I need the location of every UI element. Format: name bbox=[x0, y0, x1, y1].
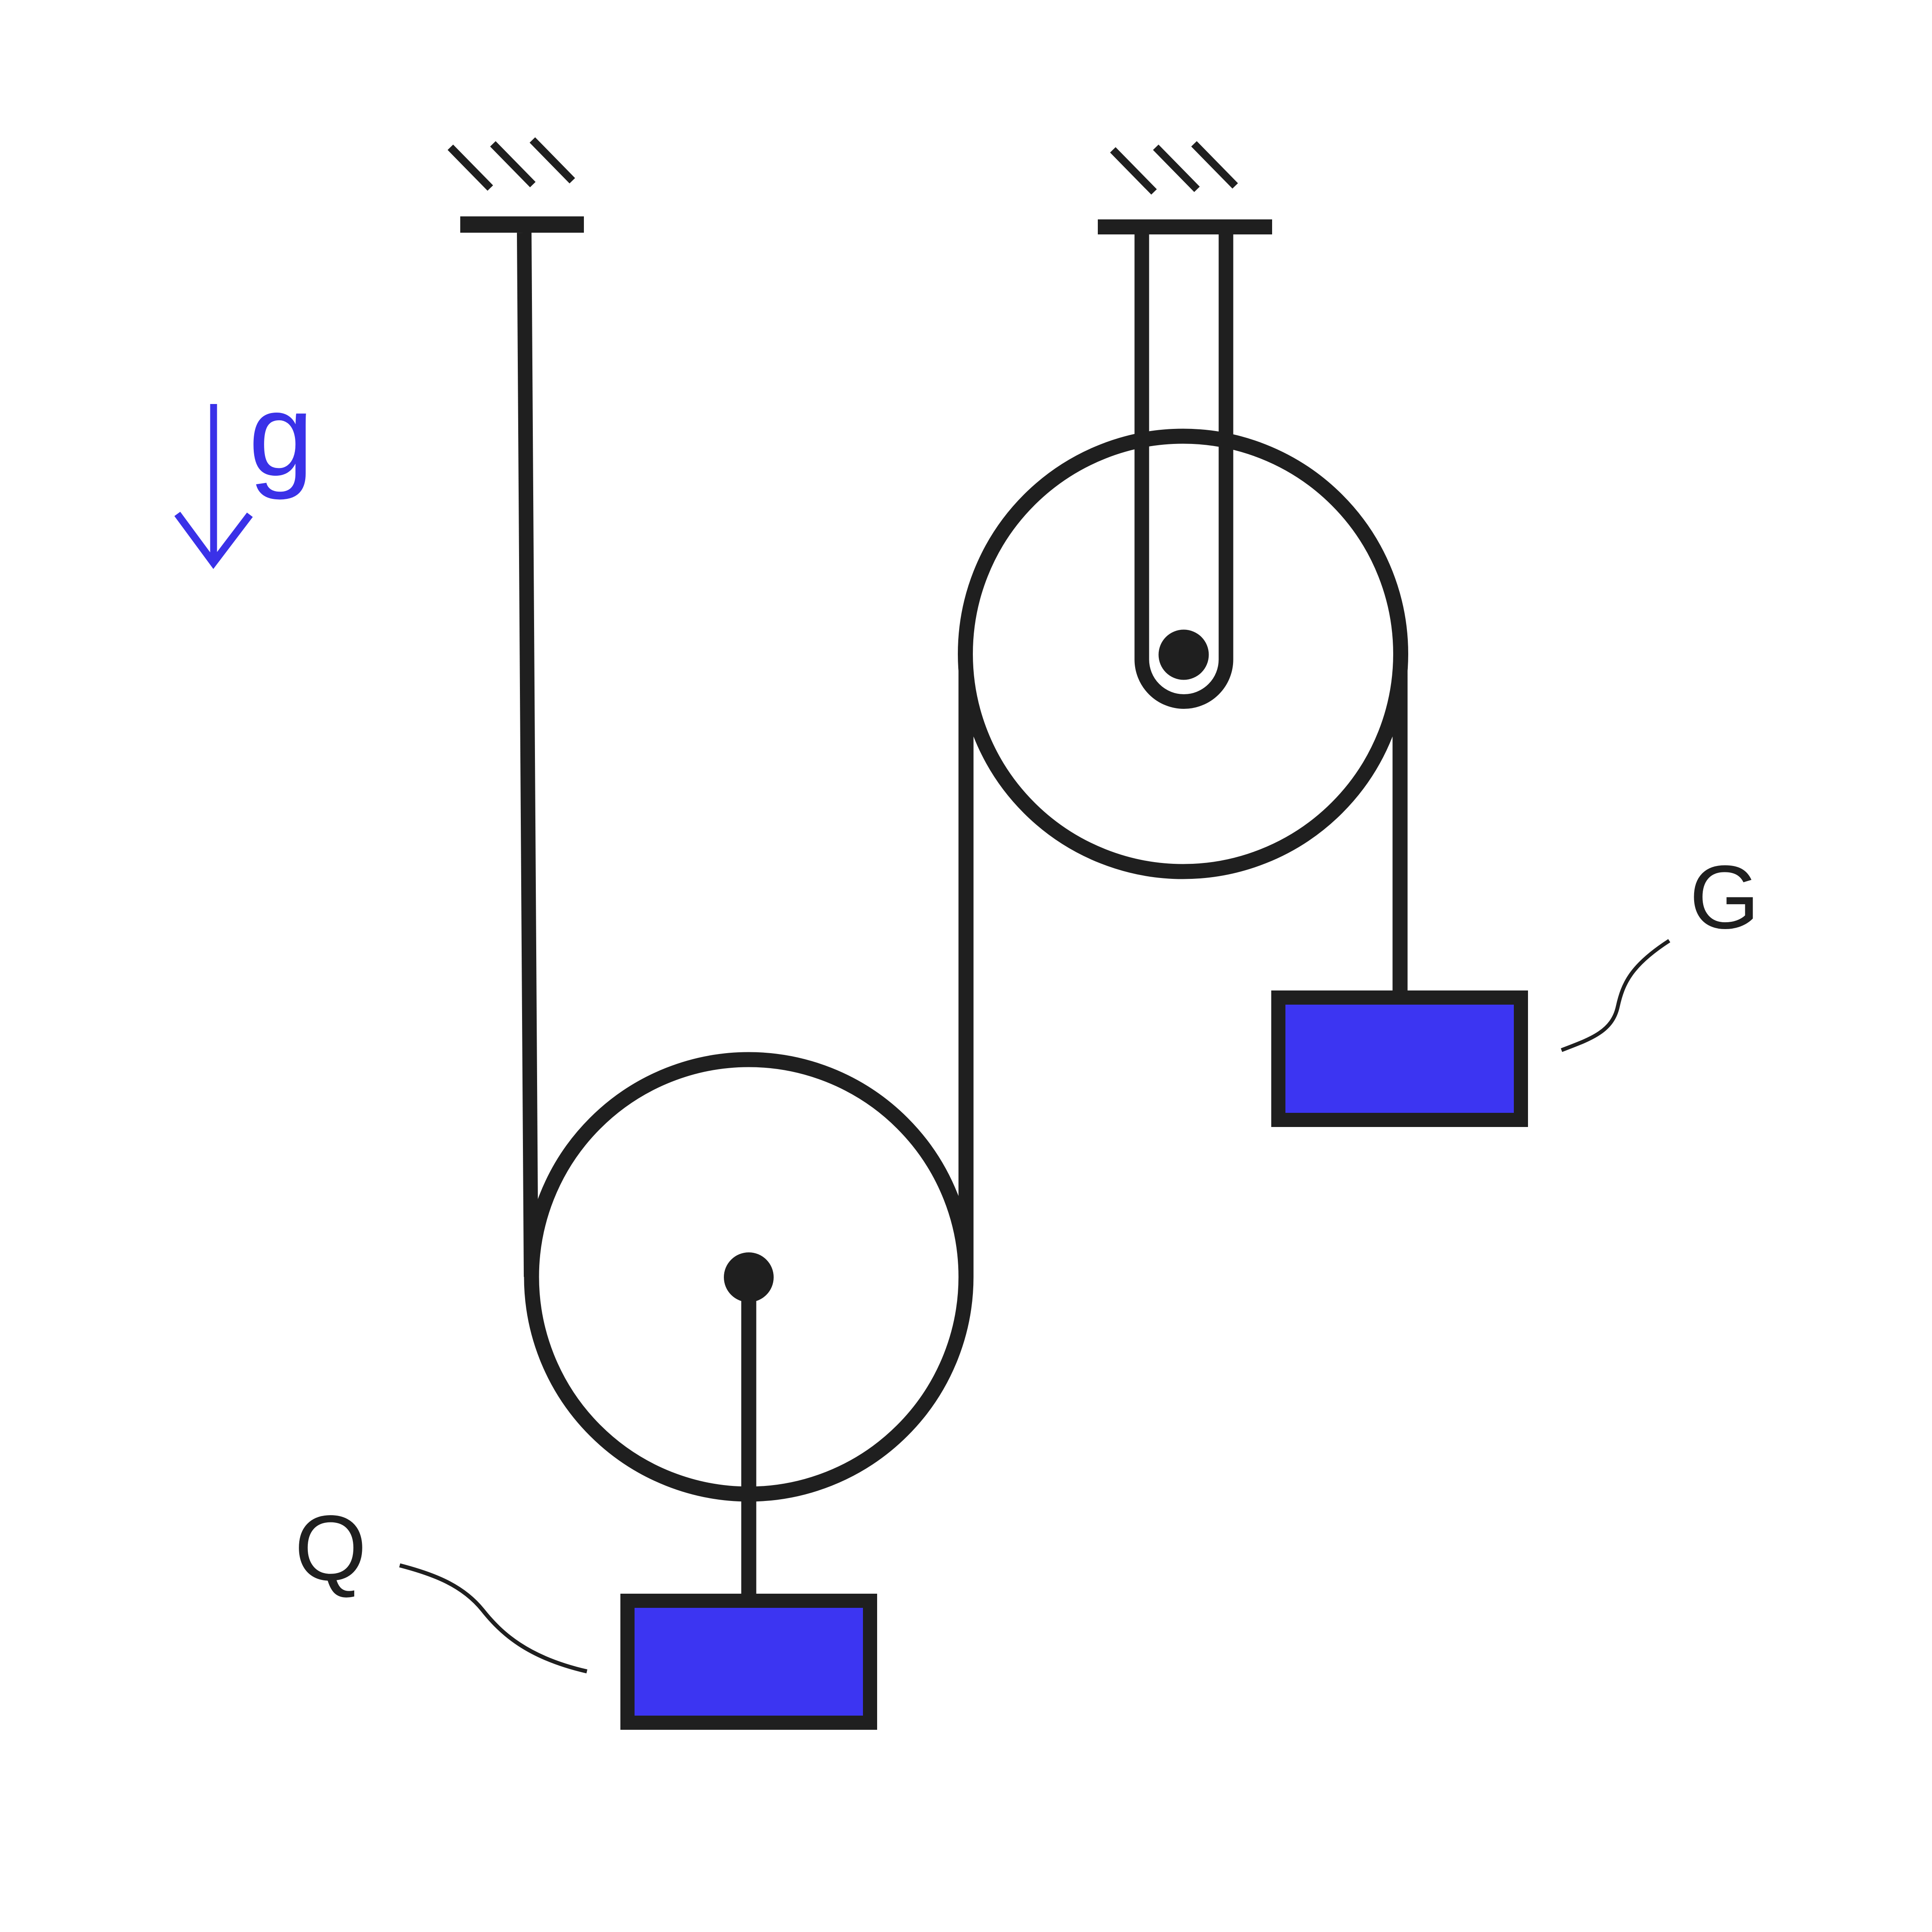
weight Q: blue body bbox=[635, 1608, 863, 1716]
weight G: border bbox=[1271, 990, 1528, 1127]
ceiling mount right: bar bbox=[1098, 219, 1272, 234]
svg-text:g: g bbox=[249, 370, 313, 501]
ceiling mount right: hatch 2 bbox=[1156, 147, 1197, 189]
ceiling mount left: bar bbox=[460, 216, 584, 233]
clevis yoke of pulley P2 bbox=[1142, 234, 1226, 702]
ceiling mount left: hatch 2 bbox=[493, 144, 533, 185]
leader squiggle for G bbox=[1561, 941, 1669, 1050]
leader squiggle for Q bbox=[400, 1565, 587, 1671]
ceiling mount left: hatch 3 bbox=[532, 140, 572, 181]
svg-text:Q: Q bbox=[295, 1496, 367, 1600]
gravity arrow shaft bbox=[210, 404, 217, 557]
wire: left rope from ceiling to lower pulley bbox=[524, 233, 531, 1277]
svg-text:G: G bbox=[1689, 847, 1759, 948]
weight Q: border bbox=[620, 1594, 877, 1730]
wire: middle rope between pulleys bbox=[959, 653, 974, 1277]
pulley P1 (lower) wheel bbox=[532, 1060, 966, 1494]
axle dot of pulley P2 bbox=[1159, 630, 1209, 680]
ceiling mount right: hatch 1 bbox=[1113, 150, 1154, 192]
wire: right rope from top pulley to weight G bbox=[1393, 653, 1408, 990]
hanger rod from pulley P1 to weight Q bbox=[741, 1277, 756, 1595]
gravity arrow head bbox=[177, 514, 250, 563]
ceiling mount right: hatch 3 bbox=[1194, 144, 1235, 186]
pulley P2 (upper) wheel bbox=[966, 436, 1401, 872]
weight G: blue body bbox=[1285, 1005, 1514, 1113]
ceiling mount left: hatch 1 bbox=[450, 147, 490, 188]
axle dot of pulley P1 bbox=[724, 1252, 774, 1302]
